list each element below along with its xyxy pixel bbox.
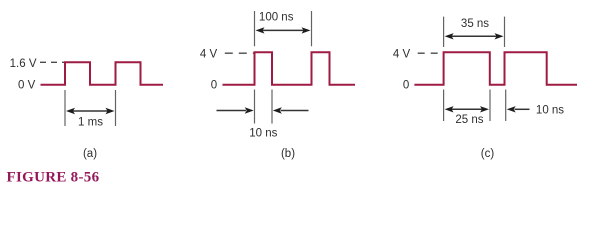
svg-text:(c): (c) (481, 148, 495, 160)
svg-text:100 ns: 100 ns (259, 11, 294, 23)
svg-text:10 ns: 10 ns (249, 128, 277, 140)
svg-text:25 ns: 25 ns (455, 114, 483, 126)
svg-text:1 ms: 1 ms (78, 116, 103, 128)
svg-text:4 V: 4 V (393, 48, 411, 60)
svg-text:4 V: 4 V (200, 48, 218, 60)
svg-text:FIGURE 8-56: FIGURE 8-56 (7, 170, 100, 186)
svg-text:0: 0 (211, 80, 217, 92)
svg-text:(a): (a) (83, 148, 97, 160)
svg-text:(b): (b) (281, 148, 295, 160)
svg-text:0 V: 0 V (18, 80, 36, 92)
svg-text:0: 0 (403, 80, 409, 92)
svg-text:10 ns: 10 ns (536, 104, 564, 116)
svg-text:1.6 V: 1.6 V (10, 58, 37, 70)
svg-text:35 ns: 35 ns (461, 18, 489, 30)
